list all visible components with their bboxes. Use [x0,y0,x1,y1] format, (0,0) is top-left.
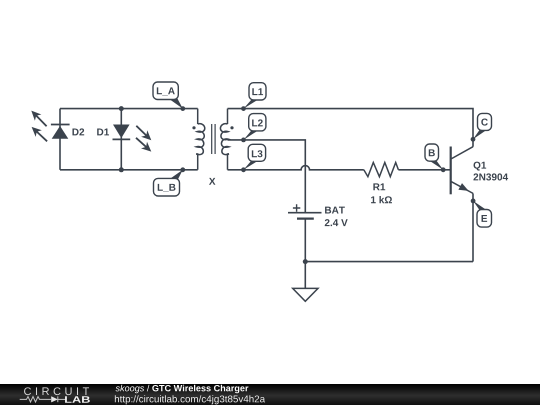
label D2 [72,128,84,135]
footer title line [116,385,249,394]
label Q1 [474,162,487,171]
value 2N3904 [473,173,508,180]
transformer X core [212,124,215,154]
wire net L2 middle [228,140,306,212]
node label L_B [154,167,186,196]
junction node ground rail [303,259,308,264]
logo LAB text [65,396,90,403]
transformer phase dot right [230,126,233,129]
pin label E [471,199,492,228]
pin label B [425,144,446,172]
resistor R1 [364,163,399,177]
value 2.4 V [325,219,348,226]
ground [293,288,318,301]
wire top-left net L_A [60,108,198,110]
wire ground rail bottom [305,261,473,263]
pin label C [471,113,492,141]
LED D1 [97,125,151,152]
wire net L1 top right [228,109,474,147]
LED D2 [31,111,84,142]
resistor R1 label [373,183,385,190]
transformer X right winding with center tap [220,109,229,170]
transformer X left winding [196,109,205,170]
wire bottom-left net L_B [60,169,198,171]
transformer label X [209,178,216,185]
battery BAT [288,204,348,226]
wire left edge through D2 [59,109,61,170]
label BAT [325,207,345,214]
wire D1 branch [120,109,122,170]
wire battery negative lead [304,219,306,262]
node label L3 [241,144,266,172]
junction node D1 top [119,106,124,111]
node label L_A [153,82,185,111]
logo CIRCUIT text [24,387,89,395]
transistor Q1 2N3904 [451,147,508,195]
footer bar [0,384,540,405]
junction node D1 bottom [119,167,124,172]
wire emitter vertical [472,193,474,261]
wire ground stem [304,262,306,289]
wire net L3 to resistor with hop [228,166,364,170]
node label L2 [241,114,266,143]
resistor R1 value 1 kOhm [371,196,392,203]
node label L1 [241,83,266,111]
footer url line [115,395,265,404]
wire resistor to base [398,169,451,171]
transformer phase dot left [192,126,195,129]
logo squiggle resistor and diode [20,396,66,402]
label D1 [97,129,109,136]
